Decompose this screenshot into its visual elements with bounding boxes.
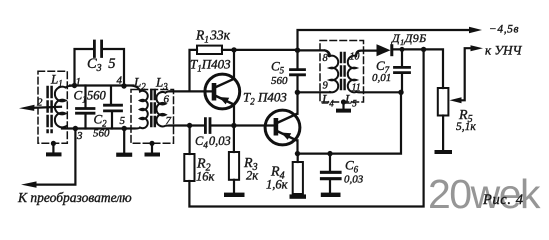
svg-text:L5: L5: [344, 92, 357, 109]
ground bar under node5: [116, 153, 132, 157]
svg-text:C3 5: C3 5: [87, 56, 115, 74]
wire: T2 collector up to C5: [296, 76, 298, 114]
junction dot C7 top: [400, 47, 405, 52]
wire: R1 right to collector rail and L4 pin8: [222, 50, 329, 56]
junction dot C7 bottom / pin11 / emitter riser: [398, 90, 403, 95]
core of L4 L5 (dashed bars): [341, 53, 345, 93]
arrowhead R5 wiper: [450, 97, 462, 103]
diode D1 cathode bar: [390, 44, 393, 56]
svg-text:560: 560: [271, 75, 288, 87]
svg-text:2: 2: [37, 97, 43, 109]
svg-text:0,03: 0,03: [344, 174, 364, 186]
junction dot return rail top: [421, 47, 426, 52]
node 3 dot: [73, 126, 78, 131]
diode D1 Д9Б triangle: [377, 44, 391, 56]
transistor T2 collector diagonal: [278, 114, 297, 123]
svg-text:L3: L3: [155, 75, 168, 92]
wire: T1 emitter down: [233, 105, 235, 126]
wire: L5 pin11 to C7 node: [356, 91, 401, 94]
svg-text:6: 6: [164, 94, 170, 106]
inductor L3 winding: [156, 91, 169, 126]
transistor T1 emitter arrowhead: [219, 97, 229, 104]
wire: T2 emitter down: [296, 140, 298, 153]
svg-text:5,1к: 5,1к: [456, 121, 476, 133]
wire: к УНЧ tap from R5 wiper: [458, 48, 472, 100]
resistor R1 box: [197, 46, 222, 54]
ground stem of box L1: [52, 143, 54, 152]
svg-text:3: 3: [76, 130, 83, 142]
svg-text:16к: 16к: [196, 170, 215, 184]
wire: R1 left lead down to base line: [190, 50, 198, 92]
svg-text:К преобразователю: К преобразователю: [17, 190, 132, 205]
wire: C6 stem bottom to ground: [329, 180, 331, 192]
wire: L1 tap to antenna arrow: [33, 107, 61, 108]
arrowhead к УНЧ: [471, 45, 484, 51]
svg-text:4: 4: [117, 75, 123, 87]
wire: L5 pin10 to diode: [356, 51, 377, 56]
svg-text:Рис. 4: Рис. 4: [482, 192, 524, 208]
svg-text:5: 5: [120, 115, 126, 127]
junction dot C6 tap: [327, 151, 332, 156]
capacitor C2 plates: [105, 105, 122, 111]
svg-text:C6: C6: [345, 158, 359, 175]
svg-text:C5: C5: [271, 59, 285, 76]
wire: pin9 to L4: [297, 91, 330, 93]
svg-text:C2: C2: [94, 112, 108, 129]
arrowhead to converter: [21, 181, 37, 187]
ground bar under C6: [321, 193, 341, 197]
wire: C3 top loop (node1 up, over to node4): [75, 49, 125, 86]
capacitor C4 plates: [205, 119, 210, 133]
wire: node3 down and left to converter arrow: [35, 129, 75, 185]
resistor R2 box: [184, 154, 194, 181]
capacitor C7 stem top: [401, 49, 403, 66]
node 4 dot: [121, 83, 126, 88]
inductor L1 winding: [55, 86, 75, 129]
transistor T2 base bar: [274, 118, 279, 136]
resistor R4 box: [293, 162, 303, 194]
capacitor C5 plates: [291, 70, 305, 75]
transistor T1 collector diagonal: [216, 79, 234, 87]
capacitor C7 plates: [395, 67, 410, 72]
ground dot on box L4L5: [341, 99, 346, 104]
junction dot L4 pin9 tap: [295, 90, 300, 95]
wire: node5 to ground: [123, 129, 125, 153]
svg-text:1: 1: [76, 76, 82, 88]
svg-text:C4 0,03: C4 0,03: [195, 134, 231, 150]
ground bar under R3: [224, 193, 245, 197]
inductor L4 winding: [325, 50, 338, 92]
shield box L1 (dashed): [38, 71, 67, 143]
transistor T1 circle: [205, 74, 240, 109]
svg-text:9: 9: [323, 81, 329, 92]
wire: T1 collector up: [233, 50, 235, 79]
junction dot T1 emitter / R3: [231, 123, 236, 128]
capacitor C1 stem top: [84, 86, 86, 108]
svg-text:11: 11: [352, 83, 361, 94]
wire: emitter line to riser: [298, 92, 402, 153]
wire: R3 stem: [233, 126, 235, 153]
shield box L4 L5 (dashed): [320, 41, 364, 103]
ground bar under R4: [290, 194, 307, 198]
ground stem of box L2L3: [151, 143, 153, 152]
ground bar under R5: [435, 150, 453, 154]
wire: R2 bottom to return rail, rail to detector node: [189, 49, 423, 206]
wire: diode output to R5: [393, 49, 443, 88]
svg-text:Т1П403: Т1П403: [190, 57, 231, 74]
capacitor C1 stem bottom: [84, 115, 86, 129]
capacitor C3 plates: [94, 41, 101, 57]
wire: R3 to ground: [233, 180, 235, 193]
transistor T2 emitter arrowhead: [281, 133, 291, 140]
ground dot on box L1: [51, 141, 56, 146]
svg-text:2к: 2к: [246, 169, 258, 183]
svg-text:Т2 П403: Т2 П403: [243, 90, 287, 107]
wire: node1-node4 tank rail y85.5: [70, 84, 134, 86]
core of L2 L3 (dashed bars): [151, 90, 155, 127]
wire: top supply rail to -4,5v arrow: [298, 30, 472, 50]
arrowhead -4,5v: [469, 27, 482, 33]
svg-text:к УНЧ: к УНЧ: [485, 43, 522, 58]
capacitor C1 plates: [77, 109, 95, 114]
arrowhead antenna: [19, 105, 35, 111]
capacitor C6 plates: [322, 172, 341, 178]
wire: R5 bottom to ground: [442, 116, 444, 151]
transistor T1 base bar: [212, 83, 217, 101]
wire: R4 stem: [297, 154, 299, 162]
transistor T2 circle: [265, 110, 300, 145]
junction dot emitter/R4: [295, 151, 300, 156]
wire: bottom tank rail y128.5: [62, 127, 135, 129]
ground bar under box L2L3: [145, 153, 161, 157]
transistor T2 emitter diagonal: [278, 132, 297, 141]
junction dot T1 collector at rail: [231, 47, 236, 52]
svg-text:−4,5в: −4,5в: [489, 24, 519, 36]
transistor T1 emitter diagonal: [216, 96, 234, 105]
svg-text:1,6к: 1,6к: [266, 178, 288, 192]
node 1 dot: [72, 83, 77, 88]
resistor R3 box: [229, 152, 239, 180]
ground bar under box L1: [46, 152, 62, 156]
ground dot on box L2L3: [149, 141, 154, 146]
junction dot R2 tap: [187, 123, 192, 128]
wire: L3 pin7 через C4 to T2 base: [170, 124, 274, 126]
svg-text:560: 560: [87, 89, 107, 103]
shield box L2 L3 (dashed): [131, 90, 174, 144]
svg-text:Д1Д9Б: Д1Д9Б: [391, 31, 427, 47]
capacitor C2 stem top: [110, 86, 112, 104]
potentiometer R5 box: [438, 88, 449, 116]
wire: L3 pin6 to T1 base: [170, 90, 212, 92]
wire: R2 stem: [189, 126, 191, 155]
wire: C5 top to rail: [296, 50, 298, 68]
ground stem of box L4L5: [342, 102, 344, 109]
capacitor C7 stem bottom: [401, 74, 402, 92]
wire: C6 stem top: [329, 154, 331, 171]
svg-text:10: 10: [350, 52, 360, 63]
node 5 dot: [122, 126, 127, 131]
core of L1 (dashed bars): [48, 87, 52, 132]
svg-text:8: 8: [323, 53, 329, 64]
svg-text:L4: L4: [321, 92, 334, 109]
junction dot supply tap: [295, 48, 300, 53]
svg-text:R1 33к: R1 33к: [195, 28, 231, 46]
inductor L5 winding: [348, 56, 356, 93]
inductor L2 winding: [130, 86, 148, 129]
ground bar under box L4L5: [336, 109, 351, 113]
svg-text:0,01: 0,01: [372, 72, 391, 84]
capacitor C2 stem bottom: [111, 112, 113, 128]
